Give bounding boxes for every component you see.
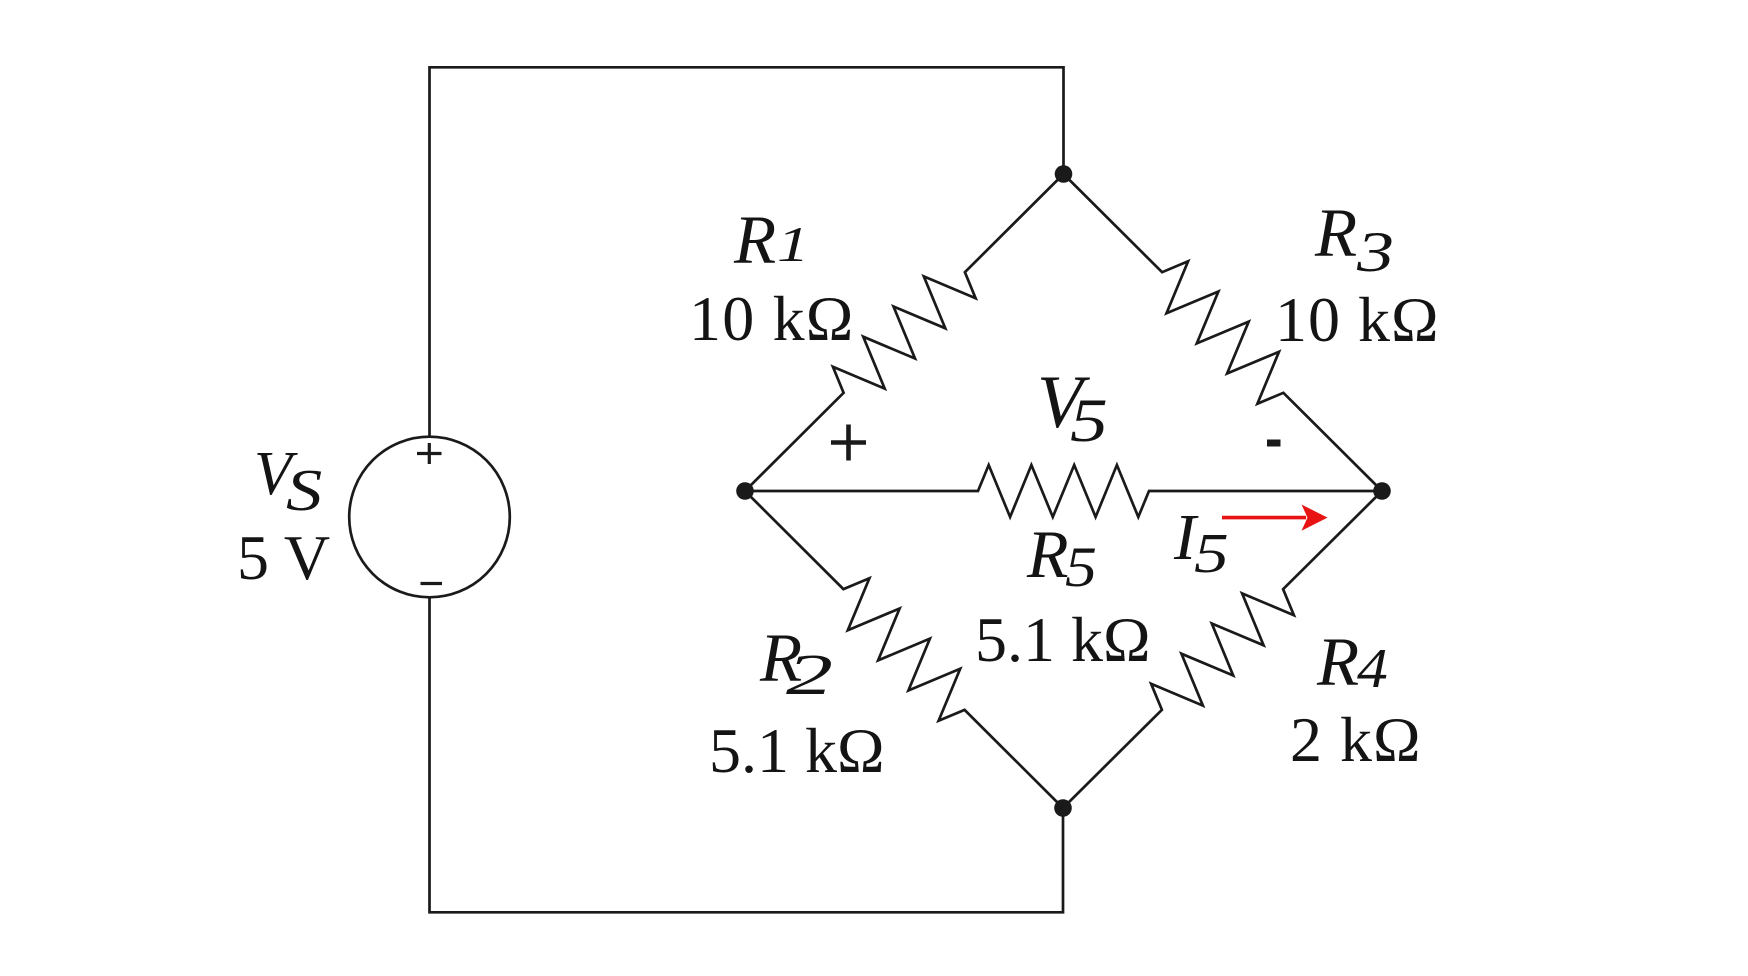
svg-text:5: 5 [1070,387,1108,454]
svg-text:5 V: 5 V [237,522,330,593]
svg-text:5: 5 [1065,536,1097,599]
svg-text:R: R [1314,195,1357,271]
svg-text:5.1 kΩ: 5.1 kΩ [975,604,1151,675]
svg-text:2: 2 [786,642,833,707]
svg-text:4: 4 [1357,638,1388,700]
svg-text:R: R [1316,624,1359,700]
svg-text:R: R [1026,516,1069,592]
svg-text:2 kΩ: 2 kΩ [1290,704,1422,775]
svg-text:10 kΩ: 10 kΩ [1275,284,1440,355]
svg-text:3: 3 [1356,221,1394,284]
svg-text:1: 1 [777,218,809,273]
svg-text:5: 5 [1194,522,1229,584]
svg-text:R: R [733,202,776,278]
svg-text:5.1 kΩ: 5.1 kΩ [709,715,885,786]
svg-text:S: S [286,458,322,523]
svg-text:10 kΩ: 10 kΩ [689,283,855,354]
